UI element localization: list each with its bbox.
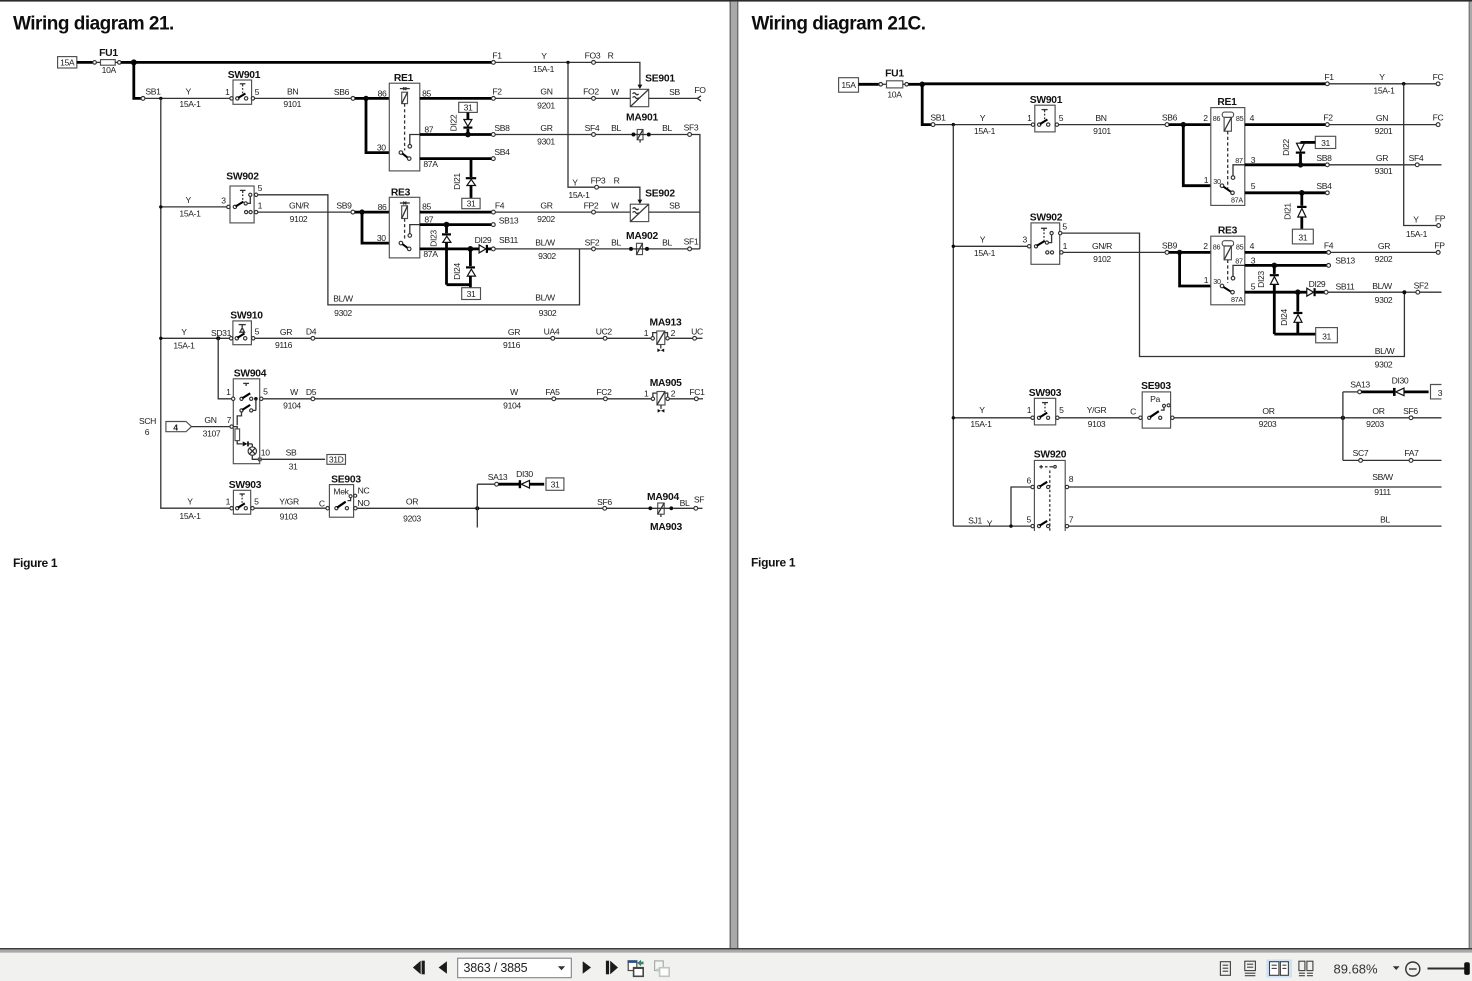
- switch SW920: [1026, 450, 1073, 531]
- svg-text:FC: FC: [1433, 72, 1444, 82]
- svg-text:DI24: DI24: [452, 263, 462, 280]
- svg-text:SB6: SB6: [1162, 113, 1178, 123]
- node SF2: [1416, 290, 1420, 294]
- page divider bar: [730, 2, 739, 949]
- wire F1 to FO3: [495, 61, 591, 63]
- svg-text:87A: 87A: [423, 249, 438, 259]
- svg-text:Y/GR: Y/GR: [1087, 405, 1107, 415]
- wire RE1 pin5 to SB4: [1245, 191, 1326, 194]
- node SF cut: [694, 506, 698, 510]
- svg-text:3: 3: [1022, 235, 1027, 245]
- node D4: [311, 336, 315, 340]
- node FC: [1436, 82, 1440, 86]
- svg-text:BL/W: BL/W: [535, 237, 556, 247]
- buzzer MA913: [644, 318, 682, 352]
- svg-text:DI21: DI21: [452, 173, 462, 190]
- svg-text:10A: 10A: [102, 65, 117, 75]
- junction DI23: [444, 222, 450, 228]
- svg-text:MA905: MA905: [650, 378, 682, 389]
- svg-text:2: 2: [1203, 241, 1208, 251]
- node SF4: [592, 133, 596, 137]
- svg-text:31: 31: [467, 289, 476, 299]
- svg-text:MA913: MA913: [650, 318, 682, 329]
- svg-text:15A-1: 15A-1: [179, 99, 201, 109]
- svg-text:SF1: SF1: [684, 236, 699, 246]
- svg-text:W: W: [611, 87, 620, 97]
- svg-text:D5: D5: [306, 387, 317, 397]
- svg-text:6: 6: [145, 427, 150, 437]
- svg-text:15A-1: 15A-1: [179, 511, 201, 521]
- svg-text:15A-1: 15A-1: [974, 126, 996, 136]
- svg-text:C: C: [319, 498, 325, 508]
- svg-text:9203: 9203: [1259, 419, 1277, 429]
- svg-text:86: 86: [1213, 114, 1221, 123]
- svg-text:GN: GN: [1376, 113, 1388, 123]
- svg-text:15A-1: 15A-1: [974, 248, 996, 258]
- wire RE3 pin3 to SB13: [1245, 264, 1327, 267]
- wire SD31 branch to SW904: [218, 338, 231, 399]
- svg-text:OR: OR: [1262, 406, 1274, 416]
- wire SW903 to SE903: [1059, 417, 1140, 419]
- wire main right bus vertical: [952, 125, 954, 526]
- svg-text:SB: SB: [669, 201, 680, 211]
- wire SE903 OR 9203 to SF6: [357, 507, 603, 509]
- wire SW920 pin6 feed: [1011, 487, 1031, 526]
- label 31 box below DI21: [462, 198, 480, 208]
- wire MA905 to FC1: [670, 398, 695, 400]
- node SB8: [491, 133, 495, 137]
- svg-text:Figure 1: Figure 1: [13, 556, 58, 570]
- svg-text:5: 5: [1251, 181, 1256, 191]
- svg-text:SW904: SW904: [234, 369, 267, 380]
- label 31 box: [1316, 328, 1338, 343]
- fuse FU1 10A: [101, 60, 116, 66]
- svg-text:RE1: RE1: [1217, 97, 1237, 108]
- node F2: [492, 97, 496, 101]
- svg-text:87A: 87A: [423, 159, 438, 169]
- svg-text:2: 2: [1203, 113, 1208, 123]
- wire FP3 into SE902: [599, 187, 640, 200]
- wire RE3 87 to SB13: [420, 223, 492, 226]
- relay RE1: [1203, 97, 1256, 205]
- wire SB1 to SW901: [145, 97, 231, 99]
- wire SW902 pin1 to SB9: [1063, 251, 1165, 253]
- svg-text:R: R: [614, 176, 620, 186]
- junction RE1 pin1 branch: [1181, 122, 1186, 127]
- svg-text:SB4: SB4: [494, 147, 510, 157]
- svg-text:Y/GR: Y/GR: [279, 497, 299, 507]
- svg-text:GN/R: GN/R: [1092, 241, 1112, 251]
- svg-text:DI23: DI23: [1256, 271, 1266, 288]
- node SB1: [931, 123, 935, 127]
- svg-text:SW901: SW901: [1030, 95, 1063, 106]
- svg-text:BL/W: BL/W: [535, 292, 556, 302]
- svg-text:Y: Y: [541, 51, 547, 61]
- node F2: [1325, 123, 1329, 127]
- wire bus corner to SW903: [161, 507, 232, 510]
- svg-text:FU1: FU1: [885, 69, 904, 80]
- page number input: [458, 958, 572, 978]
- node SC7: [1359, 459, 1363, 463]
- wire RE3 pin5 87A row: [1245, 291, 1300, 294]
- svg-text:F2: F2: [492, 87, 502, 97]
- svg-text:15A: 15A: [841, 80, 856, 90]
- svg-text:9111: 9111: [1374, 487, 1391, 497]
- node FC1 cut: [694, 397, 698, 401]
- svg-text:3: 3: [1438, 388, 1443, 398]
- node SB9: [1165, 251, 1169, 255]
- connector MA904: [647, 492, 679, 517]
- node D5: [311, 397, 315, 401]
- svg-text:FU1: FU1: [99, 48, 118, 59]
- svg-text:9301: 9301: [1375, 166, 1393, 176]
- svg-text:DI21: DI21: [1283, 203, 1293, 220]
- svg-text:3: 3: [1251, 155, 1256, 165]
- svg-text:C: C: [1130, 407, 1136, 417]
- svg-text:1: 1: [1027, 113, 1032, 123]
- node SB13: [1327, 264, 1331, 268]
- svg-text:31: 31: [1298, 233, 1307, 243]
- svg-text:31: 31: [1321, 138, 1330, 148]
- wire SC7 FA7 row: [1343, 459, 1359, 461]
- diode DI24: [452, 249, 476, 288]
- wire SW901 to SB6: [255, 97, 351, 99]
- label 31 box below DI21: [1292, 229, 1313, 244]
- svg-text:SB1: SB1: [930, 112, 946, 122]
- wire SW902 pin1 to SB9: [258, 211, 351, 213]
- previous page button: [439, 961, 447, 973]
- sensor SE903 (Mek): [326, 474, 370, 517]
- svg-text:MA902: MA902: [626, 231, 658, 242]
- wire RE1 pin4 to F2: [1245, 123, 1326, 126]
- svg-text:Y: Y: [186, 87, 192, 97]
- svg-text:2: 2: [671, 328, 676, 338]
- svg-text:87A: 87A: [1231, 196, 1243, 205]
- wire bus to SW903: [953, 417, 1033, 419]
- connector MA902: [626, 231, 658, 255]
- fuse FU1 10A: [887, 81, 903, 88]
- wire FO3 into SE901: [595, 62, 640, 85]
- svg-text:31: 31: [464, 102, 473, 112]
- svg-text:9201: 9201: [1375, 126, 1393, 136]
- node SB8: [1325, 163, 1329, 167]
- node SB13: [491, 223, 495, 227]
- svg-text:2: 2: [671, 389, 676, 399]
- wire 15A to fuse: [77, 61, 93, 64]
- node FA7: [1409, 459, 1413, 463]
- svg-text:OR: OR: [406, 497, 418, 507]
- svg-text:BL/W: BL/W: [1372, 281, 1393, 291]
- wire SW920 pin7 BL: [1069, 525, 1442, 527]
- svg-text:6: 6: [1026, 475, 1031, 485]
- node FO2: [592, 97, 596, 101]
- svg-text:SB/W: SB/W: [1372, 472, 1394, 482]
- svg-text:SF6: SF6: [597, 497, 612, 507]
- svg-text:BL: BL: [1380, 515, 1390, 525]
- wire SW920 pin8 SB/W 9111: [1069, 486, 1442, 488]
- svg-text:9102: 9102: [1093, 254, 1111, 264]
- svg-text:GR: GR: [1378, 241, 1390, 251]
- junction SJ1: [1009, 524, 1012, 527]
- svg-text:SW901: SW901: [228, 70, 261, 81]
- wire SA13 branch vertical: [476, 484, 478, 527]
- svg-text:F4: F4: [1324, 241, 1334, 251]
- wire SB9 to RE3 pin2: [1169, 251, 1211, 254]
- wire FA5 to FC2: [556, 398, 604, 400]
- wire SB6 to RE1 pin2: [1169, 123, 1211, 126]
- svg-text:9302: 9302: [538, 251, 556, 261]
- svg-text:Y: Y: [181, 327, 187, 337]
- svg-text:SF3: SF3: [684, 123, 699, 133]
- wire branch to RE3 pin1: [1180, 252, 1211, 286]
- svg-text:SW910: SW910: [230, 311, 263, 322]
- switch SW910: [229, 311, 263, 345]
- forward view icon disabled: [655, 961, 670, 976]
- svg-text:1: 1: [226, 497, 231, 507]
- svg-text:1: 1: [226, 387, 231, 397]
- svg-text:OR: OR: [1372, 406, 1384, 416]
- node FO3: [592, 61, 596, 65]
- svg-text:4: 4: [1250, 113, 1255, 123]
- label 31 box right of DI30: [546, 478, 564, 490]
- node SB9: [351, 210, 355, 214]
- svg-text:Wiring diagram 21.: Wiring diagram 21.: [13, 14, 174, 35]
- node SB6: [351, 97, 355, 101]
- svg-text:15A-1: 15A-1: [1373, 86, 1395, 96]
- svg-text:9104: 9104: [283, 401, 301, 411]
- svg-text:FA7: FA7: [1404, 448, 1419, 458]
- node SF4: [1415, 163, 1419, 167]
- junction RE1 coil/30 branch: [363, 96, 368, 101]
- node F1: [492, 61, 496, 65]
- wire RE3 pin4 to F4: [1245, 251, 1327, 254]
- svg-text:DI24: DI24: [1279, 309, 1289, 326]
- svg-text:MA904: MA904: [647, 492, 679, 503]
- svg-text:MA901: MA901: [626, 112, 658, 123]
- last page button: [606, 961, 609, 975]
- svg-text:BL: BL: [611, 123, 621, 133]
- wire D4 to UA4: [315, 337, 551, 339]
- wire SB1 drop from fuse junction: [134, 62, 141, 98]
- svg-text:30: 30: [1213, 277, 1221, 286]
- svg-text:9103: 9103: [280, 512, 298, 522]
- wire SW910 to D4: [255, 337, 311, 339]
- node SB4: [1325, 191, 1329, 195]
- svg-text:7: 7: [227, 415, 232, 425]
- svg-text:5: 5: [1059, 405, 1064, 415]
- wire main left bus vertical: [160, 98, 162, 508]
- svg-text:SE903: SE903: [1141, 381, 1171, 392]
- wire F4 to FP: [1331, 251, 1437, 253]
- svg-text:SB11: SB11: [499, 235, 519, 245]
- svg-text:87A: 87A: [1231, 295, 1243, 304]
- wire SW902 pin5 loop to BL/W bus: [258, 195, 580, 305]
- svg-text:FC1: FC1: [689, 387, 705, 397]
- switch SW903: [1027, 388, 1064, 425]
- svg-text:UA4: UA4: [544, 327, 560, 337]
- wire bus to SW902 pin3: [161, 206, 227, 208]
- svg-text:4: 4: [173, 422, 178, 432]
- label 31 box cut by page edge: [1431, 385, 1442, 399]
- wire fuse to junction: [121, 61, 134, 64]
- wire fuse to junction: [909, 83, 923, 86]
- wire FP2 to SE902: [595, 211, 630, 213]
- wire SB1 to SW901: [935, 124, 1033, 126]
- svg-text:SE903: SE903: [331, 474, 361, 485]
- wire SW901 to SB6: [1059, 124, 1165, 126]
- junction DI24: [468, 246, 474, 252]
- svg-text:F4: F4: [495, 201, 505, 211]
- wire RE1 87 to SB8: [420, 133, 492, 136]
- svg-text:5: 5: [1059, 113, 1064, 123]
- svg-text:SB1: SB1: [145, 87, 161, 97]
- svg-text:87: 87: [424, 124, 433, 134]
- svg-text:BL: BL: [611, 237, 621, 247]
- junction DI22: [465, 132, 471, 138]
- node F1: [1325, 82, 1329, 86]
- node 31D box: [327, 455, 346, 465]
- svg-text:31: 31: [289, 462, 298, 472]
- svg-text:SB9: SB9: [336, 201, 352, 211]
- svg-text:SF2: SF2: [1414, 280, 1429, 290]
- svg-text:DI30: DI30: [516, 469, 533, 479]
- node SF6: [603, 506, 607, 510]
- svg-text:3107: 3107: [203, 428, 221, 438]
- diode DI29: [473, 235, 492, 253]
- svg-text:SC7: SC7: [1353, 448, 1369, 458]
- svg-text:1: 1: [1027, 405, 1032, 415]
- svg-text:UC: UC: [691, 327, 703, 337]
- svg-text:1: 1: [258, 201, 263, 211]
- node F4: [1327, 251, 1331, 255]
- svg-text:SF4: SF4: [585, 123, 600, 133]
- wire FO2 to SE901: [595, 97, 630, 99]
- svg-text:9116: 9116: [503, 340, 521, 350]
- svg-text:9116: 9116: [275, 340, 293, 350]
- svg-text:Y: Y: [979, 405, 985, 415]
- svg-text:Y: Y: [1379, 72, 1385, 82]
- svg-text:SA13: SA13: [488, 472, 508, 482]
- svg-text:SA13: SA13: [1350, 379, 1370, 389]
- svg-text:Y: Y: [572, 177, 578, 187]
- svg-text:GR: GR: [540, 123, 552, 133]
- wire SW904 pin10 to 31D: [261, 458, 325, 460]
- diode DI22: [1281, 139, 1315, 163]
- svg-text:Pa: Pa: [1150, 394, 1160, 404]
- node FA5: [552, 397, 556, 401]
- svg-text:DI23: DI23: [429, 230, 439, 247]
- node SA13: [495, 482, 499, 486]
- wire SA13 branch vertical: [1342, 392, 1344, 461]
- svg-text:1: 1: [644, 328, 649, 338]
- junction to FP3 branch: [566, 61, 569, 64]
- svg-text:BL/W: BL/W: [1375, 346, 1396, 356]
- svg-text:85: 85: [422, 88, 431, 98]
- svg-text:SCH: SCH: [139, 416, 156, 426]
- svg-text:3863 / 3885: 3863 / 3885: [464, 961, 528, 975]
- label 31 box above DI22: [459, 102, 478, 112]
- svg-text:85: 85: [1236, 114, 1244, 123]
- svg-text:7: 7: [1069, 514, 1074, 524]
- wire RE3 87A row: [420, 247, 473, 250]
- node F4: [492, 210, 496, 214]
- node SB11: [491, 247, 495, 251]
- wire F4 to FP2: [495, 211, 591, 213]
- wire to SA13: [1343, 391, 1358, 393]
- svg-text:Y: Y: [987, 518, 993, 528]
- svg-text:BL: BL: [662, 123, 672, 133]
- wire SW904 pin5 to D5: [263, 398, 311, 400]
- svg-text:FO3: FO3: [585, 51, 601, 61]
- svg-text:BL: BL: [680, 498, 690, 508]
- svg-text:FO2: FO2: [583, 87, 599, 97]
- svg-text:FA5: FA5: [545, 387, 560, 397]
- wire F2 to FO2: [495, 97, 591, 99]
- svg-text:Y: Y: [980, 113, 986, 123]
- node SF6: [1409, 416, 1413, 420]
- bottom separator + toolbar background: [0, 948, 1472, 981]
- node 15A supply box: [58, 57, 77, 68]
- next page button: [583, 961, 591, 973]
- diode DI22: [449, 112, 473, 133]
- diode DI23: [429, 225, 452, 285]
- svg-text:DI29: DI29: [1309, 279, 1326, 289]
- svg-text:9202: 9202: [537, 214, 555, 224]
- wire DI23/DI24 ground link: [1274, 333, 1315, 336]
- svg-text:Wiring diagram 21C.: Wiring diagram 21C.: [752, 14, 926, 35]
- svg-text:9202: 9202: [1375, 254, 1393, 264]
- svg-text:9203: 9203: [1366, 419, 1384, 429]
- svg-text:87: 87: [1235, 156, 1243, 165]
- wire bus to SW902 pin3: [953, 245, 1027, 247]
- diode DI21: [1283, 193, 1307, 229]
- svg-text:NC: NC: [358, 485, 370, 495]
- svg-text:87: 87: [1235, 257, 1243, 266]
- zoom out button: [1406, 962, 1420, 976]
- svg-text:SB6: SB6: [334, 87, 350, 97]
- svg-text:30: 30: [377, 143, 386, 153]
- diode DI29: [1300, 279, 1326, 296]
- wire top feed to F1: [922, 82, 1325, 85]
- wire SB1 drop: [922, 84, 931, 124]
- svg-text:GN: GN: [540, 87, 552, 97]
- node UA4: [551, 336, 555, 340]
- svg-text:GR: GR: [1376, 153, 1388, 163]
- wire junction to OR SF6: [1345, 417, 1409, 419]
- svg-text:UC2: UC2: [596, 327, 613, 337]
- svg-text:BN: BN: [287, 87, 298, 97]
- svg-text:FP2: FP2: [584, 201, 599, 211]
- svg-text:15A: 15A: [60, 58, 75, 68]
- wire 15A to fuse: [859, 83, 879, 86]
- svg-text:31: 31: [467, 199, 476, 209]
- wire UA4 to UC2: [555, 337, 604, 339]
- svg-text:15A-1: 15A-1: [179, 208, 201, 218]
- wire RE1 pin3 to SB8: [1245, 163, 1326, 166]
- diode DI30: [499, 469, 545, 488]
- relay RE1: [377, 73, 438, 171]
- svg-text:GR: GR: [508, 327, 520, 337]
- wire branch to RE1 pin1: [1183, 125, 1211, 186]
- junction main left bus: [159, 97, 162, 100]
- wire SB8 row to SF3: [495, 134, 591, 136]
- svg-text:5: 5: [1062, 222, 1067, 232]
- svg-text:RE3: RE3: [1218, 226, 1238, 237]
- svg-text:86: 86: [378, 88, 387, 98]
- switch SW903: [226, 480, 262, 514]
- svg-text:DI30: DI30: [1392, 376, 1409, 386]
- svg-text:SW902: SW902: [1030, 213, 1063, 224]
